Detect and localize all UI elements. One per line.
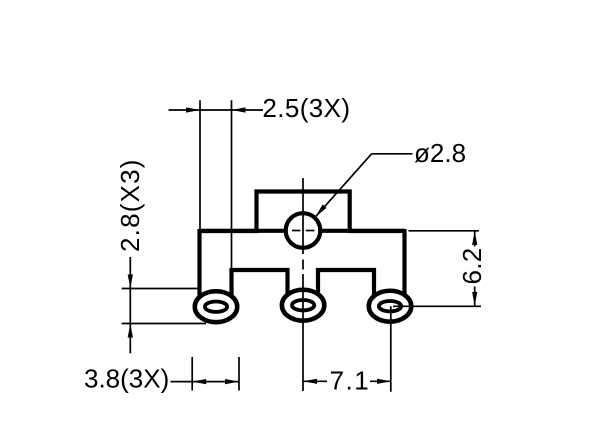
vertical centerline through hole [302,178,304,254]
arrow right at x=391 [377,379,391,384]
left notch [232,270,288,296]
svg-text:2.8(X3): 2.8(X3) [115,158,145,252]
arrow up at y=231 [472,231,477,245]
arrow right at x=239 [225,379,239,384]
arrow up at y=323.5 [128,324,133,338]
svg-text:6.2: 6.2 [457,247,487,284]
centerline lower / 7.1 extension [302,274,304,391]
part right outer edge [402,229,406,297]
part left outer edge [197,229,201,298]
text 7.1 with white gap [327,369,370,391]
dim 2.8(X3) left: extension bottom [122,323,206,325]
arrow right-pointing at x=200 [186,107,200,112]
svg-text:3.8(3X): 3.8(3X) [84,364,169,394]
dim 6.2 vertical line [474,231,476,306]
svg-text:ø2.8: ø2.8 [414,138,466,168]
arrow left at x=303 [303,379,317,384]
right notch [318,270,374,296]
left eyelet inner [205,302,227,312]
svg-text:7.1: 7.1 [330,366,371,396]
dim 2.8(X3) left: extension top [122,288,200,290]
dim 3.8(3X): extension left at x=192.2 [191,357,193,391]
extension line left (2.5 dim, x=200) [199,100,201,289]
part shelf line left of hole [200,229,286,233]
right eyelet inner [379,301,401,311]
centerline dash [302,260,304,270]
dim 6.2: extension bottom from right eyelet center [393,305,481,307]
arrow left-pointing at x=231.5 [232,107,246,112]
dim 2.5(3X) line [169,109,264,111]
leader o2.8 horizontal [372,153,413,155]
left eyelet outer [195,291,237,322]
leader o2.8 diagonal [316,154,372,217]
arrow down at y=288.5 [128,275,133,289]
dim 7.1 line [303,380,391,382]
dim 3.8(3X): extension right at x=239 [238,357,240,391]
center eyelet inner [292,300,314,310]
svg-text:2.5(3X): 2.5(3X) [262,93,350,123]
leader arrowhead [316,204,327,216]
dim 2.8(X3) vertical line [129,257,131,353]
dim 6.2: extension top [409,230,480,232]
right eyelet outer [369,291,411,322]
center eyelet outer [282,290,324,321]
arrow left at x=192.2 [192,379,206,384]
hole circle o2.8 [286,213,321,248]
extension line right (2.5 dim, x=231.5) [231,100,233,289]
dim 7.1: extension right at x=390.8 from eyelet center [390,306,392,392]
part outline top profile [200,192,405,232]
text 6.2 rotated with white gap [457,247,487,287]
part shelf line right of hole [320,229,404,233]
circle center mark horizontal dashes [292,230,300,232]
arrow down at y=306 [472,292,477,306]
dim 3.8 line with tail [171,381,240,383]
